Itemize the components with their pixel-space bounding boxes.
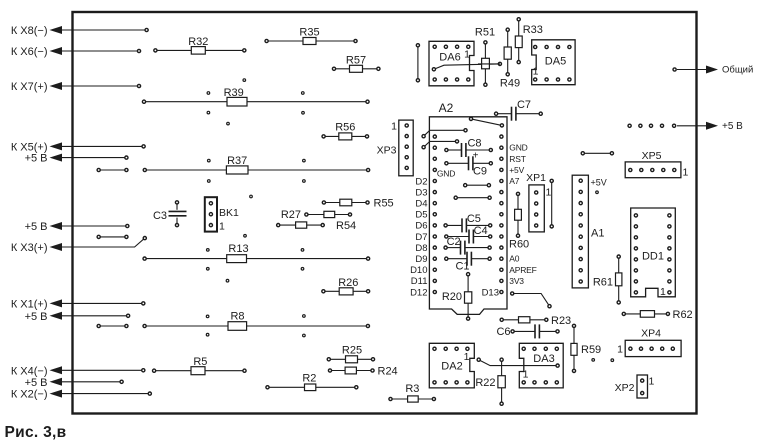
- svg-text:R25: R25: [342, 344, 362, 356]
- svg-text:К Х3(+): К Х3(+): [11, 242, 48, 254]
- svg-text:GND: GND: [437, 169, 455, 179]
- resistor R51: [475, 27, 500, 87]
- resistor R25: [327, 344, 374, 362]
- svg-text:C7: C7: [517, 99, 531, 111]
- svg-text:R3: R3: [405, 383, 419, 395]
- svg-text:XP5: XP5: [642, 150, 662, 162]
- connector XP4: [617, 328, 681, 357]
- svg-text:R59: R59: [581, 344, 601, 356]
- resistor R32: [154, 36, 246, 54]
- svg-text:1: 1: [683, 167, 689, 179]
- resistor R20: [442, 273, 472, 321]
- svg-text:D11: D11: [411, 276, 428, 287]
- svg-text:D4: D4: [415, 199, 427, 210]
- svg-text:R51: R51: [475, 27, 495, 39]
- wire A2 top diagonal: [469, 117, 503, 127]
- wire A2 internal a: [464, 184, 491, 187]
- connector XP2: [615, 375, 655, 398]
- svg-text:XP4: XP4: [641, 328, 661, 340]
- net K X7(+) lead-out: [11, 81, 141, 93]
- svg-text:A2: A2: [439, 101, 454, 115]
- svg-text:DA5: DA5: [545, 56, 566, 68]
- svg-text:C9: C9: [473, 166, 487, 178]
- IC DD1: [631, 208, 676, 298]
- svg-text:R37: R37: [227, 155, 247, 167]
- svg-text:DA3: DA3: [533, 353, 554, 365]
- caption Ris. 3,v: [5, 424, 67, 441]
- svg-text:BK1: BK1: [219, 207, 239, 219]
- svg-text:R62: R62: [673, 309, 693, 321]
- capacitor C5: [444, 213, 492, 232]
- svg-text:R20: R20: [442, 291, 462, 303]
- module A2 outline: [429, 101, 507, 314]
- via near +5V label: [596, 191, 599, 194]
- svg-text:+5V: +5V: [591, 178, 607, 188]
- svg-text:1: 1: [464, 49, 470, 61]
- wire jumper above XP5: [581, 152, 613, 155]
- resistor R61: [593, 255, 622, 304]
- svg-text:C6: C6: [496, 326, 510, 338]
- svg-text:1: 1: [219, 221, 225, 233]
- svg-text:D3: D3: [415, 187, 427, 198]
- net +5V right lead-out with pad row: [628, 121, 743, 132]
- svg-text:R27: R27: [281, 209, 301, 221]
- resistor R35: [265, 27, 357, 45]
- svg-text:+5 В: +5 В: [722, 121, 743, 132]
- svg-text:R33: R33: [523, 24, 543, 36]
- svg-text:XP2: XP2: [615, 382, 635, 394]
- svg-text:R13: R13: [228, 243, 248, 255]
- capacitor C7: [495, 99, 543, 121]
- svg-text:D10: D10: [410, 265, 427, 276]
- resistor R27: [281, 209, 352, 221]
- svg-text:1: 1: [391, 121, 397, 133]
- svg-text:DA2: DA2: [441, 361, 462, 373]
- svg-text:R54: R54: [336, 220, 356, 232]
- resistor R57: [332, 54, 380, 72]
- svg-text:К Х1(+): К Х1(+): [11, 298, 48, 310]
- wire XP3 to A2 pin2: [422, 140, 459, 149]
- resistor R37: [143, 155, 370, 174]
- wire +5V jumper 3: [97, 324, 128, 327]
- capacitor C1: [445, 252, 492, 273]
- svg-text:APREF: APREF: [509, 265, 536, 275]
- net K X1(+) lead-out: [11, 298, 145, 310]
- svg-text:К Х7(+): К Х7(+): [11, 81, 48, 93]
- resistor R5: [153, 356, 247, 375]
- net K X4(-) lead-out: [11, 365, 145, 377]
- via pair right of R59: [592, 359, 614, 362]
- op-amp DA2: [429, 343, 474, 388]
- A2 left pin column: [433, 135, 436, 294]
- op-amp DA3: [519, 343, 563, 388]
- svg-text:К Х8(−): К Х8(−): [11, 25, 48, 37]
- svg-text:A0: A0: [509, 254, 519, 264]
- svg-text:C4: C4: [474, 225, 488, 237]
- net K X2(-) lead-out: [11, 389, 152, 401]
- svg-text:R26: R26: [338, 277, 358, 289]
- A2 right pin labels: [509, 143, 536, 286]
- resistor R8: [143, 311, 370, 331]
- svg-text:C5: C5: [467, 213, 481, 225]
- capacitor C6: [496, 324, 559, 338]
- svg-text:RST: RST: [509, 154, 525, 164]
- svg-text:DA6: DA6: [439, 52, 460, 64]
- capacitor C9: [445, 151, 493, 178]
- net K X8(-) lead-out: [11, 25, 148, 37]
- svg-text:D2: D2: [415, 176, 427, 187]
- wire +5V jumper 1: [97, 168, 128, 171]
- svg-text:+5 В: +5 В: [25, 221, 48, 233]
- resistor R60: [509, 192, 529, 250]
- svg-text:+: +: [473, 151, 479, 162]
- wire +5V jumper 2: [97, 235, 128, 238]
- svg-text:A7: A7: [509, 176, 519, 186]
- svg-text:1: 1: [649, 376, 655, 388]
- svg-text:+5 В: +5 В: [25, 377, 48, 389]
- wire from D13: [511, 292, 552, 308]
- svg-text:XP3: XP3: [377, 145, 397, 157]
- svg-text:D9: D9: [415, 254, 427, 265]
- op-amp DA5: [532, 40, 575, 85]
- wire XP3 to A2 pin1: [422, 129, 467, 138]
- svg-text:D8: D8: [415, 243, 427, 254]
- net +5V lead-out a: [25, 153, 128, 165]
- resistor R39: [142, 87, 369, 106]
- A2 data pin labels D2-D12: [410, 176, 427, 298]
- wire A2 internal b: [454, 196, 491, 199]
- svg-text:R55: R55: [374, 198, 394, 210]
- resistor R55: [322, 198, 393, 210]
- svg-text:R23: R23: [551, 315, 571, 327]
- svg-text:D13: D13: [482, 287, 499, 298]
- svg-text:+5 В: +5 В: [25, 153, 48, 165]
- label +5V near A1: [591, 178, 607, 188]
- svg-text:К Х6(−): К Х6(−): [11, 46, 48, 58]
- capacitor C4: [445, 225, 492, 244]
- svg-text:D6: D6: [415, 221, 427, 232]
- svg-text:C8: C8: [467, 138, 481, 150]
- svg-text:К Х5(+): К Х5(+): [11, 141, 48, 153]
- svg-text:D7: D7: [415, 232, 427, 243]
- svg-text:XP1: XP1: [526, 172, 546, 184]
- connector XP1: [526, 172, 551, 232]
- svg-text:3V3: 3V3: [509, 276, 524, 286]
- svg-text:R56: R56: [335, 122, 355, 134]
- svg-text:+5V: +5V: [509, 165, 524, 175]
- module A1: [572, 175, 604, 288]
- svg-text:1: 1: [464, 351, 470, 363]
- net K X5(+) lead-out: [11, 141, 145, 153]
- svg-text:R39: R39: [224, 87, 244, 99]
- wire DA6 pin to node: [432, 62, 501, 71]
- svg-text:Рис. 3,в: Рис. 3,в: [5, 424, 67, 441]
- svg-text:1: 1: [617, 344, 623, 356]
- net +5V lead-out c: [25, 311, 130, 323]
- svg-text:A1: A1: [591, 228, 604, 240]
- thermistor BK1: [205, 197, 239, 232]
- svg-text:D12: D12: [410, 287, 427, 298]
- svg-text:+5 В: +5 В: [25, 311, 48, 323]
- net Obshchiy (common) lead-out: [673, 65, 753, 76]
- via cluster dots: [206, 79, 305, 337]
- resistor R62: [622, 309, 692, 321]
- svg-text:R61: R61: [593, 277, 613, 289]
- svg-text:R22: R22: [475, 377, 495, 389]
- svg-text:C2: C2: [447, 236, 461, 248]
- connector XP5: [625, 150, 688, 179]
- A2 pin label D13: [482, 287, 499, 298]
- A2 right pin column: [500, 135, 503, 294]
- svg-text:R24: R24: [378, 366, 398, 378]
- resistor R56: [322, 122, 369, 140]
- board outline: [73, 12, 697, 414]
- net +5V lead-out b: [25, 221, 129, 233]
- A2 internal GND label: [437, 169, 455, 179]
- svg-text:1: 1: [523, 369, 529, 381]
- resistor R49: [500, 28, 520, 89]
- resistor R3: [389, 383, 436, 402]
- svg-text:R57: R57: [346, 54, 366, 66]
- wire left of DA6: [416, 44, 419, 82]
- svg-text:1: 1: [660, 286, 666, 298]
- capacitor C3: [153, 201, 187, 227]
- svg-text:GND: GND: [509, 143, 527, 153]
- resistor R13: [143, 243, 370, 262]
- resistor R22: [475, 358, 505, 405]
- svg-text:C3: C3: [153, 210, 167, 222]
- resistor R26: [322, 277, 370, 295]
- connector XP3: [377, 120, 414, 176]
- svg-text:К Х4(−): К Х4(−): [11, 365, 48, 377]
- svg-text:К Х2(−): К Х2(−): [11, 389, 48, 401]
- svg-text:D5: D5: [415, 210, 427, 221]
- net K X3(+) lead-out: [11, 237, 147, 255]
- svg-text:C1: C1: [455, 261, 469, 273]
- op-amp DA6: [429, 41, 474, 86]
- svg-text:R5: R5: [193, 356, 207, 368]
- resistor R59: [571, 324, 601, 372]
- svg-text:DD1: DD1: [642, 251, 664, 263]
- resistor R2: [266, 373, 358, 391]
- net +5V lead-out d: [25, 377, 124, 389]
- resistor R33: [515, 18, 543, 64]
- resistor R54: [277, 220, 357, 232]
- resistor R23: [500, 315, 571, 327]
- svg-text:R2: R2: [302, 373, 316, 385]
- svg-text:R8: R8: [230, 311, 244, 323]
- capacitor C8: [445, 138, 493, 158]
- capacitor C2: [444, 236, 491, 255]
- svg-text:1: 1: [533, 66, 539, 78]
- svg-text:Общий: Общий: [722, 65, 753, 76]
- svg-text:R60: R60: [509, 239, 529, 251]
- svg-text:R35: R35: [299, 27, 319, 39]
- net K X6(-) lead-out: [11, 46, 141, 58]
- wire DA2 to DA3: [477, 358, 559, 367]
- svg-text:R32: R32: [188, 36, 208, 48]
- svg-text:1: 1: [546, 187, 552, 199]
- wire right of XP1: [550, 179, 553, 228]
- svg-text:R49: R49: [500, 78, 520, 90]
- resistor R24: [328, 366, 397, 378]
